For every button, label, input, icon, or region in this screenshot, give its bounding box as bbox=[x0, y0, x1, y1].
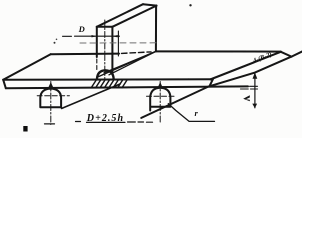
electrode 2 centerline bbox=[159, 82, 161, 123]
electrode 1 force arrow bbox=[48, 82, 54, 89]
bottom plate back edge hidden dashes bbox=[122, 52, 152, 54]
bottom plate left end cap bbox=[3, 80, 6, 89]
vertical plate centerline bbox=[104, 20, 106, 79]
vertical plate left edge bbox=[96, 27, 98, 57]
svg-text:4-(B-2): 4-(B-2) bbox=[251, 51, 273, 65]
vertical plate top back edge bbox=[143, 4, 157, 5]
plate right end cap bbox=[210, 79, 213, 86]
vertical plate front-top edge bbox=[97, 26, 113, 28]
tilted plate tip line bbox=[292, 51, 303, 56]
leader line upper from block base bbox=[104, 51, 156, 72]
dimension D arrow left bbox=[92, 35, 97, 37]
bottom plate back edge left bbox=[51, 53, 119, 56]
dimension h extension dashes bbox=[241, 88, 249, 90]
dimension D line bbox=[63, 35, 72, 37]
vertical plate back right edge bbox=[155, 6, 157, 52]
bottom plate front bottom edge bbox=[6, 86, 248, 88]
svg-text:D: D bbox=[78, 24, 85, 34]
tilted plate upper edge bbox=[211, 52, 281, 80]
electrode 2 horizontal dashed line bbox=[147, 95, 176, 97]
bottom plate top face left edge bbox=[3, 54, 50, 79]
leader line lower from block base bbox=[99, 51, 156, 76]
leader line middle from block base bbox=[109, 51, 156, 74]
dimension D+2.5h line bbox=[45, 123, 55, 125]
dimension h bottom tick bbox=[252, 104, 257, 109]
dimension h up arrow bbox=[253, 72, 258, 78]
electrode 2 body bbox=[150, 88, 170, 111]
electrode 1 centerline bbox=[50, 82, 52, 125]
vertical plate inner edge bbox=[117, 31, 119, 56]
label h glyph bbox=[243, 95, 250, 101]
electrode 1 horizontal dashed line bbox=[37, 95, 69, 97]
bottom plate back edge right bbox=[156, 50, 281, 52]
bottom left blob bbox=[23, 126, 27, 132]
svg-text:r: r bbox=[195, 108, 199, 118]
leader to electrode radius r bbox=[168, 104, 214, 122]
vertical plate left edge hidden bbox=[96, 59, 98, 71]
bottom plate front top edge bbox=[3, 78, 213, 81]
diagonal from electrode 1 to weld zone bbox=[62, 84, 121, 109]
weld nugget bbox=[97, 70, 114, 79]
electrode 2 force arrow bbox=[157, 82, 163, 89]
dimension h vertical line bbox=[254, 73, 256, 108]
dimension D arrow right bbox=[112, 35, 117, 37]
tilted plate end cap bbox=[281, 52, 292, 57]
weld section hatch bbox=[91, 80, 127, 88]
speck top bbox=[189, 4, 191, 6]
speck near D bbox=[56, 39, 58, 41]
speck mid left bbox=[54, 42, 56, 44]
svg-text:D+2.5h: D+2.5h bbox=[86, 113, 124, 124]
vertical plate top face right diagonal bbox=[112, 6, 156, 27]
electrode 1 body bbox=[40, 89, 61, 108]
tilted plate lower edge bbox=[141, 57, 291, 118]
bottom plate front bottom edge dash bbox=[250, 85, 258, 87]
hidden line behind plate bbox=[80, 42, 156, 44]
vertical plate right edge bbox=[111, 27, 113, 72]
vertical plate top face left diagonal bbox=[97, 4, 143, 27]
